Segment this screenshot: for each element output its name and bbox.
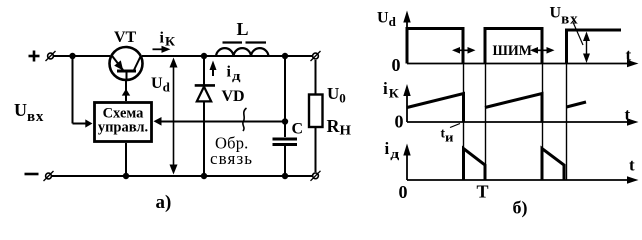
svg-text:а): а) (156, 192, 172, 213)
svg-text:управл.: управл. (98, 120, 148, 136)
svg-text:t: t (629, 156, 635, 175)
svg-text:связь: связь (210, 149, 253, 168)
svg-text:t: t (625, 105, 631, 124)
svg-text:L: L (237, 19, 249, 39)
svg-text:0: 0 (395, 112, 404, 132)
svg-text:б): б) (513, 198, 528, 219)
svg-text:0: 0 (399, 182, 408, 202)
svg-text:VT: VT (114, 29, 137, 46)
svg-text:ШИМ: ШИМ (493, 43, 533, 59)
svg-text:T: T (477, 182, 489, 202)
svg-text:C: C (292, 121, 304, 138)
svg-text:0: 0 (392, 55, 401, 75)
svg-text:VD: VD (222, 88, 245, 105)
svg-text:t: t (626, 46, 632, 65)
